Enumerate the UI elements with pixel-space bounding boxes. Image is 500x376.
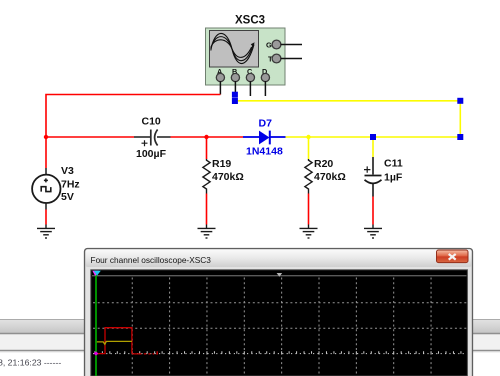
svg-text:1N4148: 1N4148 [246,146,283,158]
screen sine wave 3 [211,40,252,58]
screen wave arrowhead [251,42,255,47]
screen sine wave 2 [211,37,253,61]
terminal D [261,73,269,81]
svg-text:R20: R20 [314,158,333,170]
ground R19 [198,225,216,239]
terminal C [246,73,254,81]
terminal B [231,73,239,81]
svg-text:R19: R19 [212,158,231,170]
resistor R20 [305,159,312,194]
oscilloscope screen [210,31,259,68]
axis dotted line [93,353,467,355]
wire G stub [281,44,303,46]
svg-text:XSC3: XSC3 [235,15,265,27]
svg-text:D7: D7 [259,118,273,130]
terminal A [216,73,224,81]
svg-text:V3: V3 [61,165,74,177]
status panel divider [0,332,500,334]
node R20 junction [306,135,310,139]
handle top-right corner [457,98,463,104]
scope display [91,270,468,376]
screen sine wave 1 [211,33,254,63]
status panel divider 2 [0,349,500,351]
trigger position marker [277,273,283,277]
wire C11 bottom [372,197,374,225]
scope client area [86,267,471,376]
svg-text:C11: C11 [384,158,403,170]
wire scope A to V3 top [46,95,220,138]
wire V3 bottom [45,210,47,225]
svg-text:Four channel oscilloscope-XSC3: Four channel oscilloscope-XSC3 [91,255,212,265]
voltage source V3 [32,175,60,203]
ground C11 [364,225,382,239]
close button [437,250,469,263]
handle C11 tap [370,134,376,140]
wire T stub [281,58,303,60]
wire R19 bottom [206,194,208,225]
trigger marker magenta [92,271,99,276]
lead D [264,81,266,96]
terminal G [272,40,281,49]
wire C10 to diode [171,136,244,138]
ground V3 [37,225,55,239]
node R19 junction [204,135,208,139]
grid horizontal dashed lines [93,303,467,328]
capacitor C11 [365,157,382,197]
marker magenta [94,351,99,356]
status panel band 2 [0,335,500,350]
trigger marker cyan [94,271,101,276]
display top gridline [92,275,467,277]
wire main row left [46,136,134,138]
handle B lead [232,92,238,98]
wire R20 bottom [308,194,310,225]
trace channel A red pulse [97,328,132,354]
trace channel B yellow [97,341,132,344]
wire scope B net top [236,100,460,102]
svg-text:8, 21:16:23 ------: 8, 21:16:23 ------ [0,358,61,368]
lead A [219,81,221,94]
wire V3 top [45,137,47,168]
svg-text:G: G [266,41,272,50]
svg-text:5V: 5V [61,191,74,203]
diode D7 [243,136,259,138]
svg-text:1µF: 1µF [384,172,403,184]
trace channel D green [95,273,97,376]
svg-text:100µF: 100µF [136,148,167,160]
resistor R19 [203,159,210,194]
handle B wire start [232,98,238,104]
wire R19 top [206,137,208,159]
wire output row [286,136,461,138]
title bar [86,250,472,268]
axis tick marks [95,351,461,353]
oscilloscope XSC3 body [206,28,286,85]
lead C [249,81,251,96]
wire R20 top [308,137,310,159]
grid vertical dashed lines [132,278,431,376]
capacitor C10 [134,130,171,146]
trace red decay dashes [132,351,158,354]
ground R20 [300,225,318,239]
oscilloscope window frame [85,249,473,376]
wire right vertical [459,101,461,137]
wire C11 top [372,137,374,157]
svg-text:470kΩ: 470kΩ [314,171,346,183]
svg-text:7Hz: 7Hz [61,179,80,191]
handle bottom-right corner [457,134,463,140]
node main-left junction [44,135,48,139]
svg-text:470kΩ: 470kΩ [212,171,244,183]
terminal T [272,54,281,63]
lead B [234,81,236,93]
status panel band 1 [0,320,500,334]
svg-text:C10: C10 [142,116,161,128]
